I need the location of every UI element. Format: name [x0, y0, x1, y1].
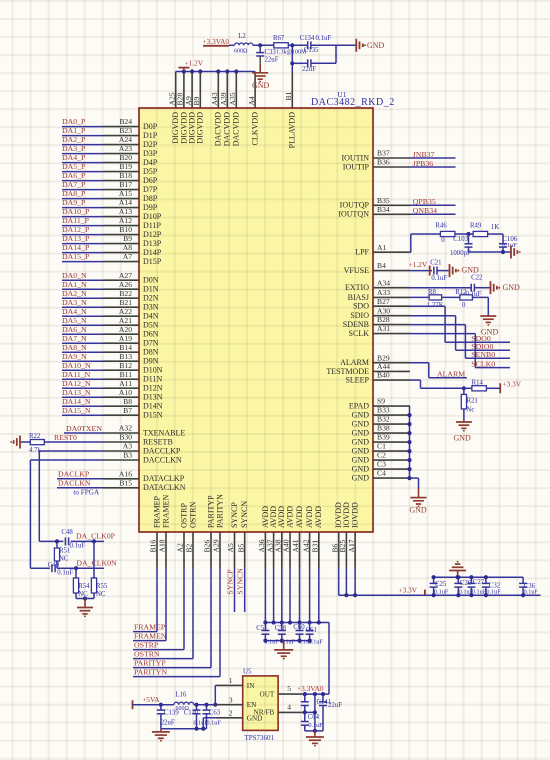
svg-text:DA9_P: DA9_P: [62, 198, 86, 207]
svg-text:B34: B34: [377, 205, 390, 214]
svg-text:C61: C61: [306, 627, 317, 634]
svg-text:1.27K: 1.27K: [427, 302, 444, 309]
svg-text:1K: 1K: [491, 224, 499, 231]
svg-text:SDENB: SDENB: [343, 320, 369, 329]
svg-text:R46: R46: [435, 223, 447, 230]
svg-text:ALARM: ALARM: [340, 358, 369, 367]
svg-text:B13: B13: [119, 352, 132, 361]
svg-text:R49: R49: [470, 223, 482, 230]
svg-text:A24: A24: [119, 135, 132, 144]
svg-text:VFUSE: VFUSE: [344, 266, 369, 275]
svg-text:TESTMODE: TESTMODE: [326, 367, 369, 376]
svg-text:A23: A23: [119, 144, 132, 153]
svg-text:DAC3482_RKD_2: DAC3482_RKD_2: [311, 97, 395, 108]
svg-text:+3.3V: +3.3V: [399, 586, 418, 595]
svg-text:D12N: D12N: [143, 384, 163, 393]
svg-text:D8P: D8P: [143, 194, 158, 203]
svg-text:DA5_N: DA5_N: [62, 316, 87, 325]
svg-text:DA15_P: DA15_P: [62, 252, 90, 261]
svg-text:D12P: D12P: [143, 230, 162, 239]
svg-text:D13N: D13N: [143, 393, 163, 402]
svg-text:DATACLKP: DATACLKP: [143, 474, 185, 483]
svg-text:B9: B9: [192, 96, 201, 105]
svg-text:B20: B20: [119, 153, 132, 162]
svg-text:A22: A22: [119, 307, 132, 316]
svg-text:C33: C33: [265, 49, 277, 56]
svg-text:D4N: D4N: [143, 312, 159, 321]
svg-text:AVDD: AVDD: [285, 506, 294, 528]
svg-text:DA4_N: DA4_N: [62, 307, 87, 316]
svg-text:GND: GND: [352, 456, 370, 465]
svg-text:IOUTQP: IOUTQP: [340, 201, 370, 210]
svg-text:0.1uF: 0.1uF: [308, 722, 323, 729]
svg-text:B12: B12: [119, 361, 132, 370]
svg-text:DA12_P: DA12_P: [62, 225, 90, 234]
svg-text:C48: C48: [61, 529, 73, 536]
svg-text:A20: A20: [119, 325, 132, 334]
svg-text:0.1uF: 0.1uF: [431, 275, 447, 282]
svg-text:B26: B26: [203, 540, 212, 553]
svg-text:FRAMEN: FRAMEN: [161, 494, 170, 528]
svg-text:B1: B1: [284, 91, 293, 100]
svg-text:A4: A4: [247, 96, 256, 105]
svg-text:PARITYN: PARITYN: [134, 667, 167, 676]
svg-text:A35: A35: [228, 92, 237, 105]
svg-text:GND: GND: [503, 283, 521, 292]
svg-text:GND: GND: [352, 447, 370, 456]
svg-text:B31: B31: [311, 540, 320, 553]
svg-text:DA3_N: DA3_N: [62, 298, 87, 307]
svg-text:DA13_N: DA13_N: [62, 388, 91, 397]
svg-text:C49: C49: [48, 562, 60, 569]
svg-text:D0N: D0N: [143, 276, 159, 285]
svg-text:B35: B35: [377, 196, 390, 205]
svg-text:B15: B15: [119, 478, 132, 487]
svg-text:22uF: 22uF: [302, 66, 316, 73]
svg-text:0: 0: [441, 237, 445, 244]
svg-text:+3.3VA0: +3.3VA0: [297, 684, 324, 693]
svg-text:REST0: REST0: [54, 433, 77, 442]
svg-text:C21: C21: [430, 260, 441, 267]
svg-text:D8N: D8N: [143, 348, 159, 357]
svg-text:DA1_P: DA1_P: [62, 126, 86, 135]
svg-text:B17: B17: [119, 180, 132, 189]
svg-text:C22: C22: [471, 275, 483, 282]
svg-text:DA_CLK0N: DA_CLK0N: [76, 558, 117, 567]
svg-text:22uF: 22uF: [265, 56, 279, 63]
svg-text:A5: A5: [226, 543, 235, 552]
svg-text:SLEEP: SLEEP: [345, 376, 369, 385]
svg-text:A18: A18: [158, 539, 167, 552]
svg-text:B24: B24: [119, 117, 132, 126]
svg-text:DACVDD: DACVDD: [232, 112, 241, 146]
svg-text:D1N: D1N: [143, 285, 159, 294]
svg-text:B29: B29: [377, 353, 390, 362]
svg-text:DA6_N: DA6_N: [62, 325, 87, 334]
svg-text:A1: A1: [377, 243, 386, 252]
svg-text:B18: B18: [119, 171, 132, 180]
svg-text:B16: B16: [149, 540, 158, 553]
svg-text:A19: A19: [119, 334, 132, 343]
svg-text:DACCLKP: DACCLKP: [143, 446, 181, 455]
svg-text:B4: B4: [377, 261, 386, 270]
svg-text:SDO: SDO: [353, 302, 369, 311]
svg-text:DIGVDD: DIGVDD: [196, 112, 205, 144]
svg-text:DA14_P: DA14_P: [62, 243, 90, 252]
svg-text:A21: A21: [119, 316, 132, 325]
svg-text:+5VA: +5VA: [142, 695, 160, 704]
svg-text:0.1uF: 0.1uF: [57, 570, 73, 577]
svg-text:R54: R54: [78, 583, 90, 590]
svg-text:DA9_N: DA9_N: [62, 352, 87, 361]
svg-text:1.3k@100M: 1.3k@100M: [276, 50, 307, 56]
svg-text:Nc: Nc: [467, 407, 475, 414]
svg-text:TPS73601: TPS73601: [245, 734, 275, 742]
svg-text:GND: GND: [352, 465, 370, 474]
svg-text:A42: A42: [301, 539, 310, 552]
svg-text:DA1_N: DA1_N: [62, 280, 87, 289]
svg-text:B19: B19: [119, 162, 132, 171]
svg-text:R21: R21: [467, 398, 478, 405]
svg-text:EPAD: EPAD: [349, 402, 369, 411]
svg-text:DA10_P: DA10_P: [62, 207, 90, 216]
svg-text:C60: C60: [293, 624, 305, 631]
svg-text:B23: B23: [119, 126, 132, 135]
svg-text:L2: L2: [238, 33, 246, 40]
svg-text:SYNCP: SYNCP: [225, 569, 234, 595]
svg-text:DA7_P: DA7_P: [62, 180, 86, 189]
svg-text:NC: NC: [59, 555, 69, 562]
svg-text:D9N: D9N: [143, 357, 159, 366]
svg-text:AVDD: AVDD: [295, 506, 304, 528]
svg-text:OSTRP: OSTRP: [134, 640, 159, 649]
svg-text:ALARM: ALARM: [437, 369, 465, 378]
svg-text:SYNCN: SYNCN: [236, 568, 245, 595]
svg-text:B5: B5: [236, 543, 245, 552]
svg-text:D7N: D7N: [143, 339, 159, 348]
svg-text:R12: R12: [455, 289, 467, 296]
svg-text:OSTRP: OSTRP: [179, 503, 188, 528]
svg-text:D13P: D13P: [143, 239, 162, 248]
svg-text:A10: A10: [119, 388, 132, 397]
svg-text:DA6_P: DA6_P: [62, 171, 86, 180]
svg-text:DA13_P: DA13_P: [62, 234, 90, 243]
svg-text:A13: A13: [119, 207, 132, 216]
svg-text:DA11_N: DA11_N: [62, 370, 91, 379]
svg-text:A3: A3: [123, 442, 132, 451]
svg-text:C139: C139: [164, 710, 179, 717]
svg-text:A44: A44: [377, 362, 390, 371]
svg-text:A17: A17: [347, 539, 356, 552]
svg-text:DA2_P: DA2_P: [62, 135, 86, 144]
svg-text:DA10_N: DA10_N: [62, 361, 91, 370]
svg-text:0.1uF: 0.1uF: [316, 35, 332, 42]
svg-text:A14: A14: [119, 198, 132, 207]
svg-text:R67: R67: [273, 35, 285, 42]
svg-text:IN: IN: [247, 682, 255, 690]
svg-text:A40: A40: [282, 539, 291, 552]
svg-text:B28: B28: [377, 315, 390, 324]
svg-text:B40: B40: [377, 371, 390, 380]
svg-text:B38: B38: [377, 424, 390, 433]
svg-text:D4P: D4P: [143, 158, 158, 167]
svg-text:DA3_P: DA3_P: [62, 144, 86, 153]
svg-text:OSTRN: OSTRN: [188, 502, 197, 528]
svg-text:B22: B22: [119, 289, 132, 298]
svg-text:B33: B33: [377, 406, 390, 415]
svg-text:AVDD: AVDD: [305, 506, 314, 528]
svg-text:2: 2: [229, 709, 233, 718]
svg-text:A7: A7: [123, 252, 132, 261]
svg-text:C135: C135: [304, 47, 319, 54]
svg-text:DA7_N: DA7_N: [62, 334, 87, 343]
svg-text:B8: B8: [123, 397, 132, 406]
svg-text:RESETB: RESETB: [143, 437, 173, 446]
svg-text:0.1uF: 0.1uF: [486, 589, 501, 596]
svg-text:B14: B14: [119, 343, 132, 352]
svg-text:SDIO: SDIO: [350, 311, 369, 320]
svg-text:PARITYP: PARITYP: [134, 658, 166, 667]
svg-text:DACLKN: DACLKN: [58, 478, 91, 487]
svg-text:R22: R22: [29, 433, 41, 440]
svg-text:IOUTQN: IOUTQN: [338, 210, 369, 219]
svg-text:A27: A27: [119, 271, 132, 280]
svg-text:DA14_N: DA14_N: [62, 397, 91, 406]
svg-text:to FPGA: to FPGA: [73, 489, 100, 497]
svg-text:B36: B36: [377, 158, 390, 167]
svg-text:FRAMEN: FRAMEN: [134, 631, 167, 640]
svg-text:D1P: D1P: [143, 131, 158, 140]
svg-text:GND: GND: [409, 506, 427, 515]
svg-text:C140: C140: [184, 710, 199, 717]
svg-text:B11: B11: [120, 370, 133, 379]
svg-text:A43: A43: [210, 92, 219, 105]
svg-text:EXTIO: EXTIO: [345, 283, 369, 292]
svg-text:S9: S9: [377, 397, 385, 406]
svg-text:GND: GND: [462, 266, 480, 275]
svg-text:B21: B21: [119, 298, 132, 307]
svg-text:R8: R8: [428, 289, 437, 296]
svg-text:DA8_N: DA8_N: [62, 343, 87, 352]
svg-text:A26: A26: [119, 280, 132, 289]
svg-text:IOUTIN: IOUTIN: [341, 153, 369, 162]
svg-text:C58: C58: [275, 625, 287, 632]
svg-text:+3.3V: +3.3V: [503, 380, 522, 389]
svg-text:D3N: D3N: [143, 303, 159, 312]
svg-text:CLKVDD: CLKVDD: [251, 112, 260, 146]
svg-text:A15: A15: [119, 189, 132, 198]
svg-text:D14N: D14N: [143, 402, 163, 411]
svg-text:QPB35: QPB35: [413, 197, 436, 206]
svg-text:DA0_N: DA0_N: [62, 271, 87, 280]
svg-text:DA0_P: DA0_P: [62, 117, 86, 126]
svg-text:DA4_P: DA4_P: [62, 153, 86, 162]
svg-text:B10: B10: [119, 225, 132, 234]
svg-text:GND: GND: [352, 420, 370, 429]
svg-text:D6N: D6N: [143, 330, 159, 339]
svg-text:C103: C103: [453, 236, 468, 243]
svg-text:BIASJ: BIASJ: [348, 293, 369, 302]
svg-text:5: 5: [287, 684, 291, 693]
svg-text:600Ω: 600Ω: [234, 48, 248, 54]
svg-text:U5: U5: [243, 668, 252, 676]
svg-text:D10N: D10N: [143, 366, 163, 375]
svg-text:DA_CLK0P: DA_CLK0P: [76, 532, 116, 541]
svg-text:0: 0: [462, 302, 466, 309]
svg-text:NC: NC: [78, 591, 88, 598]
svg-text:D11P: D11P: [143, 221, 161, 230]
svg-text:SYNCN: SYNCN: [240, 501, 249, 528]
svg-text:C134: C134: [300, 35, 315, 42]
svg-text:DACLKP: DACLKP: [58, 469, 90, 478]
svg-text:PARITYP: PARITYP: [206, 495, 215, 528]
svg-text:NC: NC: [96, 591, 106, 598]
svg-text:GND: GND: [247, 715, 263, 723]
svg-text:GND: GND: [352, 411, 370, 420]
svg-text:A8: A8: [123, 243, 132, 252]
svg-text:A30: A30: [377, 306, 390, 315]
svg-text:IOVDD: IOVDD: [342, 502, 351, 528]
svg-text:B25: B25: [338, 540, 347, 553]
svg-text:C64: C64: [308, 714, 320, 721]
svg-text:R14: R14: [472, 379, 484, 386]
svg-text:D15N: D15N: [143, 411, 163, 420]
svg-text:DA0TXEN: DA0TXEN: [66, 424, 102, 433]
svg-text:B2: B2: [185, 543, 194, 552]
svg-text:D10P: D10P: [143, 212, 162, 221]
svg-text:D6P: D6P: [143, 176, 158, 185]
svg-text:JPB36: JPB36: [413, 159, 433, 168]
svg-text:DA11_P: DA11_P: [62, 216, 90, 225]
svg-text:A32: A32: [119, 424, 132, 433]
svg-text:GND: GND: [352, 438, 370, 447]
svg-text:A16: A16: [119, 469, 132, 478]
svg-text:DACCLKN: DACCLKN: [143, 455, 182, 464]
svg-text:SCLK0: SCLK0: [471, 359, 495, 368]
svg-text:D5N: D5N: [143, 321, 159, 330]
svg-text:C2: C2: [377, 451, 386, 460]
svg-text:D5P: D5P: [143, 167, 158, 176]
svg-text:D2N: D2N: [143, 294, 159, 303]
svg-text:A41: A41: [291, 539, 300, 552]
svg-text:B3: B3: [123, 451, 132, 460]
svg-text:0.1uF: 0.1uF: [207, 719, 222, 726]
svg-text:B32: B32: [377, 415, 390, 424]
svg-text:B27: B27: [377, 297, 390, 306]
svg-text:4: 4: [287, 702, 291, 711]
svg-text:C25: C25: [435, 581, 447, 588]
svg-text:+1.2V: +1.2V: [409, 260, 428, 269]
svg-text:DATACLKN: DATACLKN: [143, 483, 186, 492]
svg-text:GND: GND: [352, 429, 370, 438]
svg-text:C3: C3: [377, 460, 386, 469]
svg-text:C51: C51: [256, 625, 267, 632]
svg-text:A31: A31: [377, 324, 390, 333]
svg-text:PARITYN: PARITYN: [215, 494, 224, 528]
svg-text:DACVDD: DACVDD: [214, 112, 223, 146]
svg-text:B39: B39: [377, 433, 390, 442]
svg-text:B7: B7: [123, 406, 132, 415]
svg-text:LPF: LPF: [355, 248, 369, 257]
svg-text:0.1uF: 0.1uF: [70, 542, 86, 549]
svg-text:22uF: 22uF: [328, 702, 342, 709]
svg-text:D9P: D9P: [143, 203, 158, 212]
svg-text:OSTRN: OSTRN: [134, 649, 160, 658]
svg-text:A11: A11: [119, 379, 132, 388]
svg-text:DA12_N: DA12_N: [62, 379, 91, 388]
svg-text:B37: B37: [377, 149, 390, 158]
svg-text:L16: L16: [176, 691, 188, 698]
svg-text:IOUTIP: IOUTIP: [343, 162, 370, 171]
svg-text:B9: B9: [123, 234, 132, 243]
svg-text:GND: GND: [252, 81, 270, 90]
svg-text:FRAMEP: FRAMEP: [152, 495, 161, 528]
svg-text:GND: GND: [454, 433, 472, 442]
svg-text:GND: GND: [352, 474, 370, 483]
svg-text:A33: A33: [377, 288, 390, 297]
svg-text:D14P: D14P: [143, 248, 162, 257]
svg-text:DA5_P: DA5_P: [62, 162, 86, 171]
svg-text:PLLAVDD: PLLAVDD: [288, 112, 297, 149]
svg-text:0.1uF: 0.1uF: [524, 589, 539, 596]
svg-text:C4: C4: [377, 469, 386, 478]
svg-text:0.1uF: 0.1uF: [434, 589, 449, 596]
svg-text:DA2_N: DA2_N: [62, 289, 87, 298]
svg-text:AVDD: AVDD: [314, 506, 323, 528]
svg-text:SYNCP: SYNCP: [230, 502, 239, 528]
svg-text:1000pF: 1000pF: [450, 250, 471, 257]
svg-text:A2: A2: [176, 543, 185, 552]
svg-text:A12: A12: [119, 216, 132, 225]
svg-text:DA15_N: DA15_N: [62, 406, 91, 415]
svg-text:FRAMEP: FRAMEP: [134, 622, 166, 631]
svg-text:D15P: D15P: [143, 257, 162, 266]
svg-text:0.1uF: 0.1uF: [502, 242, 517, 249]
svg-text:R55: R55: [96, 583, 108, 590]
svg-text:DACVDD: DACVDD: [223, 112, 232, 146]
svg-text:+3.3VA0: +3.3VA0: [203, 37, 230, 46]
svg-text:JNB37: JNB37: [413, 150, 435, 159]
svg-text:+1.2V: +1.2V: [185, 59, 204, 68]
svg-text:22uF: 22uF: [161, 719, 175, 726]
svg-text:A29: A29: [212, 539, 221, 552]
svg-text:A34: A34: [377, 278, 390, 287]
svg-text:C63: C63: [209, 710, 221, 717]
svg-text:1: 1: [229, 676, 233, 685]
svg-text:D11N: D11N: [143, 375, 162, 384]
svg-text:GND: GND: [367, 41, 385, 50]
svg-text:OUT: OUT: [260, 691, 275, 699]
svg-text:SCLK: SCLK: [349, 329, 370, 338]
svg-text:D7P: D7P: [143, 185, 158, 194]
svg-text:D3P: D3P: [143, 149, 158, 158]
svg-text:3: 3: [229, 696, 233, 705]
svg-text:C1: C1: [377, 442, 386, 451]
svg-text:QNB34: QNB34: [413, 206, 437, 215]
svg-text:DA8_P: DA8_P: [62, 189, 86, 198]
svg-text:TXENABLE: TXENABLE: [143, 428, 185, 437]
svg-text:A39: A39: [219, 92, 228, 105]
svg-text:B30: B30: [119, 433, 132, 442]
svg-text:D2P: D2P: [143, 140, 158, 149]
svg-text:D0P: D0P: [143, 122, 158, 131]
svg-text:IOVDD: IOVDD: [351, 502, 360, 528]
